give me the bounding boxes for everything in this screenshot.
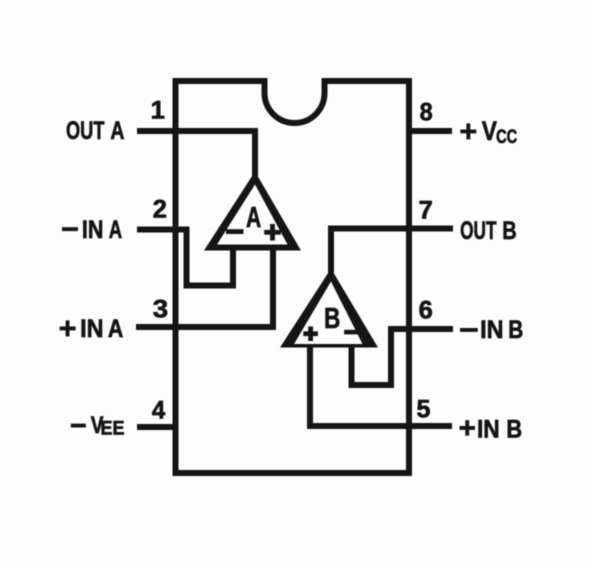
svg-text:B: B xyxy=(324,301,340,334)
svg-text:A: A xyxy=(108,315,124,343)
svg-text:2: 2 xyxy=(153,196,167,224)
svg-text:B: B xyxy=(506,416,522,444)
svg-text:IN: IN xyxy=(480,316,503,344)
svg-text:6: 6 xyxy=(419,297,433,325)
svg-text:A: A xyxy=(109,215,122,244)
svg-text:V: V xyxy=(482,118,498,147)
svg-text:IN: IN xyxy=(82,215,104,243)
svg-text:OUT: OUT xyxy=(460,215,496,244)
svg-text:IN: IN xyxy=(80,315,103,343)
svg-text:A: A xyxy=(110,117,124,145)
svg-text:3: 3 xyxy=(153,295,168,323)
svg-text:4: 4 xyxy=(152,397,166,425)
svg-text:7: 7 xyxy=(419,197,433,225)
svg-text:IN: IN xyxy=(477,415,500,443)
svg-text:B: B xyxy=(508,315,523,343)
svg-text:OUT: OUT xyxy=(66,116,105,145)
svg-text:5: 5 xyxy=(417,396,431,424)
svg-text:1: 1 xyxy=(151,97,165,125)
svg-text:CC: CC xyxy=(496,125,517,148)
svg-text:A: A xyxy=(246,202,261,234)
svg-text:EE: EE xyxy=(101,417,125,439)
svg-text:B: B xyxy=(502,215,516,244)
svg-text:8: 8 xyxy=(420,99,433,127)
